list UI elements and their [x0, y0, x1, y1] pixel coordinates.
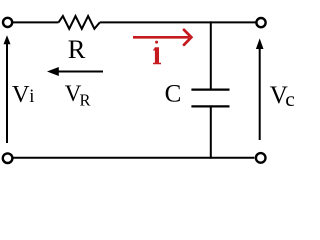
capacitor C top plate [191, 88, 229, 90]
wire bottom [14, 157, 255, 159]
svg-text:R: R [68, 34, 86, 64]
wire capacitor branch upper [210, 21, 212, 89]
terminal bottom-left [3, 153, 13, 163]
label Vi [12, 81, 35, 108]
svg-text:C: C [165, 81, 182, 108]
arrow VR (left) [47, 67, 103, 76]
label VR [65, 81, 91, 110]
wire capacitor branch lower [210, 106, 212, 158]
arrow VC (up) [256, 38, 264, 140]
terminal bottom-right [256, 153, 266, 163]
arrow Vi (up) [4, 35, 11, 143]
resistor R [59, 16, 100, 29]
svg-text:R: R [80, 91, 91, 110]
terminal top-left [3, 18, 12, 27]
current arrow i (red, right) [133, 30, 191, 45]
wire top-left segment [13, 21, 59, 23]
label VC [270, 82, 295, 111]
svg-text:V: V [12, 81, 30, 108]
wire top-right segment [100, 21, 256, 23]
label i (red) [153, 41, 161, 65]
terminal top-right [256, 18, 265, 27]
capacitor C bottom plate [191, 105, 229, 107]
svg-text:i: i [29, 87, 34, 107]
svg-text:c: c [285, 87, 295, 111]
